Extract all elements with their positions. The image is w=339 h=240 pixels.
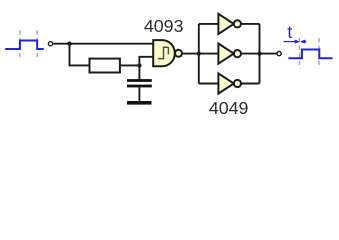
inverter input bus: [198, 24, 200, 84]
inverter U2B (middle): [218, 44, 233, 64]
svg-text:4093: 4093: [144, 16, 184, 36]
capacitor C1 top plate: [127, 79, 152, 82]
output terminal circle: [277, 52, 281, 56]
wire: node B down to capacitor: [138, 65, 140, 79]
output edge marker dashed line (falling): [318, 38, 320, 68]
input terminal circle: [48, 42, 52, 46]
wire: node A down to RC row: [70, 44, 90, 66]
wire: NAND output to inverter input bus: [182, 53, 199, 55]
wire: bus to top inverter input: [199, 23, 219, 25]
wire: capacitor to ground: [138, 87, 140, 101]
input edge marker dashed line (falling): [36, 30, 38, 60]
inverter U2A (top): [218, 14, 233, 34]
schmitt trigger hysteresis symbol: [158, 47, 169, 58]
node B junction dot: [137, 63, 141, 67]
node A junction dot: [67, 42, 71, 46]
NAND output bubble: [175, 50, 182, 57]
wire: bus to bottom inverter input: [199, 83, 219, 85]
wire: bus to middle inverter input: [199, 53, 219, 55]
inverter output bus: [259, 24, 261, 84]
inverter U2C (bottom): [218, 73, 233, 93]
NAND gate U1 (4093) body: [153, 40, 175, 66]
inverter U2C bubble: [234, 80, 241, 87]
output pulse waveform: [288, 50, 332, 59]
output edge marker dashed line (rising): [299, 38, 301, 68]
wire: input terminal to NAND top input: [53, 43, 153, 45]
capacitor C1 bottom plate: [127, 85, 152, 88]
svg-text:t: t: [287, 22, 292, 42]
wire: node B up to NAND bottom input: [139, 57, 153, 66]
svg-text:4049: 4049: [209, 98, 249, 118]
node D junction dot: [257, 51, 261, 55]
input edge marker dashed line (rising): [19, 30, 21, 60]
inverter U2A bubble: [234, 20, 241, 27]
wire: bottom inverter output to bus: [241, 83, 260, 85]
input pulse waveform: [5, 41, 44, 50]
wire: resistor to node B: [120, 64, 139, 66]
t dimension left-pointing arrow: [301, 40, 306, 43]
wire: node D to output terminal: [260, 53, 277, 55]
wire: middle inverter output to bus: [241, 53, 260, 55]
ground: [127, 101, 152, 105]
resistor R1: [90, 59, 120, 73]
node C junction dot: [197, 51, 201, 55]
inverter U2B bubble: [234, 50, 241, 57]
t dimension line with right-pointing arrow: [284, 40, 300, 43]
wire: top inverter output to bus: [241, 23, 260, 25]
